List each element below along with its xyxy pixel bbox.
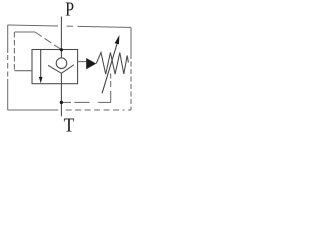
svg-text:T: T — [64, 115, 75, 137]
pilot line bottom horizontal — [14, 70, 32, 72]
pilot line top horizontal — [14, 31, 35, 33]
relief valve inlet wire — [78, 61, 87, 63]
spool arrow head — [39, 77, 43, 84]
relief valve drain horizontal wire — [61, 101, 110, 103]
enclosure top edge — [8, 25, 131, 27]
spool arrow line — [40, 50, 42, 78]
enclosure bottom edge — [8, 109, 131, 111]
pilot line left vertical — [13, 32, 15, 71]
svg-text:P: P — [65, 0, 74, 21]
main valve box — [32, 50, 78, 84]
relief valve poppet triangle — [86, 58, 96, 69]
check valve seat — [48, 65, 74, 74]
enclosure right edge — [130, 27, 132, 110]
adjustment arrow shaft — [102, 44, 117, 93]
pilot diagonal to box corner — [35, 32, 60, 49]
wire below check valve to T — [60, 73, 62, 116]
relief valve spring — [96, 53, 128, 75]
wire P vertical line — [60, 17, 62, 59]
relief valve drain vertical wire — [110, 74, 112, 103]
enclosure left edge — [7, 25, 9, 110]
junction dot at box top — [60, 48, 63, 51]
check valve circle — [56, 58, 67, 69]
adjustment arrow head — [115, 35, 120, 44]
junction dot at drain tee — [60, 101, 63, 104]
